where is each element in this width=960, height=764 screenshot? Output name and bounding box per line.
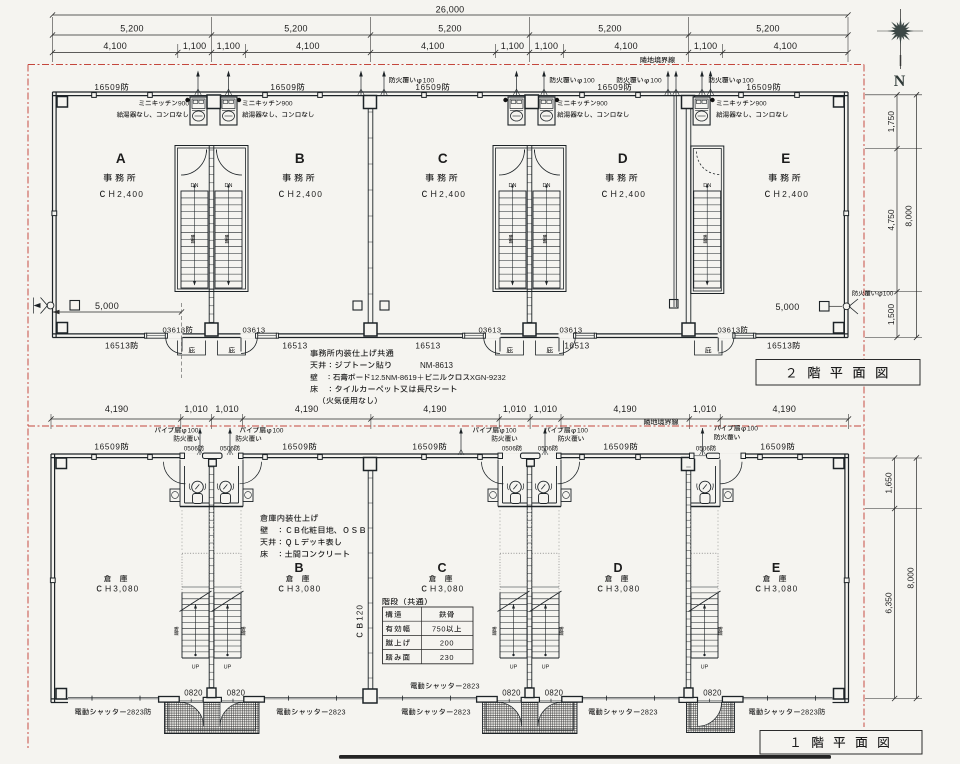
svg-text:ミニキッチン900: ミニキッチン900: [716, 99, 767, 109]
2F wall vent left: [47, 302, 54, 309]
boundary line top (2F): [28, 64, 864, 66]
svg-text:6,350: 6,350: [884, 592, 894, 614]
svg-text:給湯器なし、コンロなし: 給湯器なし、コンロなし: [116, 110, 189, 120]
svg-text:03613: 03613: [478, 326, 501, 335]
svg-text:16513: 16513: [282, 342, 307, 351]
svg-text:防火覆い: 防火覆い: [558, 434, 585, 444]
svg-text:4,100: 4,100: [296, 41, 320, 51]
svg-text:防火覆いφ100: 防火覆いφ100: [549, 76, 595, 86]
svg-text:ＣＨ3,080: ＣＨ3,080: [95, 583, 140, 596]
1F toilet+stair module E: [685, 458, 687, 699]
svg-text:天井：ＱＬデッキ表し: 天井：ＱＬデッキ表し: [260, 537, 342, 549]
svg-text:750以上: 750以上: [432, 624, 462, 635]
svg-text:16509防: 16509防: [270, 81, 305, 94]
svg-text:（火気使用なし）: （火気使用なし）: [318, 396, 382, 408]
svg-text:4,190: 4,190: [295, 404, 319, 414]
svg-text:NM-8613: NM-8613: [420, 361, 453, 370]
svg-text:DN: DN: [225, 183, 233, 189]
svg-text:0820: 0820: [227, 689, 246, 698]
svg-text:230: 230: [440, 653, 454, 662]
2F title box: [756, 360, 920, 386]
svg-text:4,190: 4,190: [105, 404, 129, 414]
svg-text:16513防: 16513防: [105, 340, 139, 353]
svg-text:1,500: 1,500: [886, 304, 896, 326]
svg-text:0506防: 0506防: [696, 444, 717, 454]
svg-text:16509防: 16509防: [603, 441, 638, 454]
1F shutter tracks: [68, 696, 159, 698]
svg-text:ＣＨ2,400: ＣＨ2,400: [420, 188, 466, 201]
svg-text:壁 ：ＣＢ化粧目地、ＯＳＢ: 壁 ：ＣＢ化粧目地、ＯＳＢ: [259, 525, 367, 537]
svg-text:UP: UP: [224, 665, 232, 671]
svg-text:ＣＨ2,400: ＣＨ2,400: [277, 188, 323, 201]
svg-text:5,000: 5,000: [775, 302, 799, 312]
svg-text:事務所内装仕上げ共通: 事務所内装仕上げ共通: [310, 348, 395, 360]
svg-text:DN: DN: [509, 183, 517, 189]
svg-text:事務所: 事務所: [605, 172, 640, 185]
svg-text:0506防: 0506防: [502, 444, 523, 454]
svg-text:A: A: [116, 151, 126, 166]
2F stair/kitchen module C-D: [493, 146, 566, 292]
svg-text:1,100: 1,100: [501, 41, 525, 51]
svg-text:防火覆い: 防火覆い: [235, 434, 262, 444]
svg-text:03613: 03613: [242, 326, 265, 335]
1F bottom module C-D: [497, 700, 563, 702]
svg-text:4,100: 4,100: [774, 41, 798, 51]
svg-text:ＣＨ3,080: ＣＨ3,080: [277, 583, 322, 596]
boundary line top (1F): [28, 425, 864, 427]
dimension extension lines top: [52, 17, 54, 62]
svg-text:16509防: 16509防: [94, 441, 129, 454]
svg-text:電動シャッター2823: 電動シャッター2823: [276, 708, 346, 719]
svg-text:200: 200: [440, 639, 454, 648]
1F bottom module A-B: [179, 700, 245, 702]
svg-text:4,190: 4,190: [613, 404, 637, 414]
svg-text:庇: 庇: [228, 346, 235, 356]
svg-text:03613防: 03613防: [162, 326, 193, 337]
svg-text:UP: UP: [701, 665, 709, 671]
2F top wall window dividers: [92, 93, 97, 98]
svg-text:D: D: [618, 151, 628, 166]
svg-text:天井：ジプトーン貼り: 天井：ジプトーン貼り: [310, 360, 392, 372]
1F toilet+stair module A-B: [185, 453, 240, 458]
svg-text:防火覆いφ100: 防火覆いφ100: [852, 289, 894, 299]
dimension row 26,000: [53, 14, 849, 16]
svg-text:16509防: 16509防: [412, 441, 447, 454]
svg-text:5,200: 5,200: [120, 24, 144, 34]
1F top wall window dividers: [92, 455, 97, 460]
svg-text:0506防: 0506防: [184, 444, 205, 454]
svg-text:電動シャッター2823: 電動シャッター2823: [588, 708, 658, 719]
2F stair/kitchen module A-B: [175, 146, 248, 292]
svg-text:電動シャッター2823: 電動シャッター2823: [410, 682, 480, 693]
2F side wall ticks: [52, 211, 57, 216]
svg-text:２ 階 平 面 図: ２ 階 平 面 図: [785, 364, 891, 384]
svg-text:4,100: 4,100: [103, 41, 127, 51]
svg-text:16509防: 16509防: [597, 81, 632, 94]
svg-text:踏み面: 踏み面: [385, 653, 412, 664]
svg-text:事務所: 事務所: [425, 172, 460, 185]
svg-text:給湯器なし、コンロなし: 給湯器なし、コンロなし: [716, 110, 789, 120]
2F outer walls: [53, 91, 849, 93]
svg-text:D: D: [613, 561, 622, 575]
svg-text:給湯器なし、コンロなし: 給湯器なし、コンロなし: [557, 110, 630, 120]
svg-text:事務所: 事務所: [768, 172, 803, 185]
right dimension chain 1F: [865, 457, 922, 459]
svg-text:事務所: 事務所: [282, 172, 317, 185]
svg-text:16509防: 16509防: [746, 81, 781, 94]
right dimension chain 2F: [865, 94, 922, 96]
svg-text:4,100: 4,100: [614, 41, 638, 51]
svg-text:隣地境界線: 隣地境界線: [644, 418, 679, 429]
north compass: [900, 9, 902, 69]
svg-text:UP: UP: [542, 665, 550, 671]
svg-text:0820: 0820: [502, 689, 521, 698]
svg-text:DN: DN: [191, 183, 199, 189]
svg-text:0820: 0820: [545, 689, 564, 698]
svg-text:壁 ：石膏ボード12.5NM-8619＋ビニルクロスXGN-: 壁 ：石膏ボード12.5NM-8619＋ビニルクロスXGN-9232: [309, 373, 506, 384]
2F corner columns: [57, 97, 68, 108]
dimension row 4,100/1,100: [53, 52, 849, 54]
svg-text:1,100: 1,100: [217, 41, 241, 51]
1F corner columns: [56, 458, 67, 469]
svg-text:UP: UP: [510, 665, 518, 671]
svg-text:E: E: [781, 151, 791, 166]
svg-text:16509防: 16509防: [760, 441, 795, 454]
svg-text:5,000: 5,000: [95, 301, 119, 311]
2F stair/kitchen module E: [685, 96, 687, 334]
svg-text:ＣＨ2,400: ＣＨ2,400: [600, 188, 646, 201]
svg-text:ミニキッチン900: ミニキッチン900: [138, 99, 189, 109]
svg-text:16509防: 16509防: [94, 81, 129, 94]
svg-text:UP: UP: [192, 665, 200, 671]
svg-text:電動シャッター2823: 電動シャッター2823: [401, 708, 471, 719]
svg-text:B: B: [294, 561, 303, 575]
1F side wall ticks: [50, 578, 55, 583]
svg-text:5,200: 5,200: [284, 24, 308, 34]
svg-text:給湯器なし、コンロなし: 給湯器なし、コンロなし: [242, 110, 315, 120]
svg-text:ＣＨ3,080: ＣＨ3,080: [420, 583, 465, 596]
boundary line right: [863, 65, 865, 728]
dimension row 5,200 x5: [53, 34, 849, 36]
svg-text:8,000: 8,000: [904, 205, 914, 227]
svg-text:庇: 庇: [705, 346, 712, 356]
1F partition B/C: [367, 458, 369, 699]
svg-text:踊場: 踊場: [559, 626, 566, 636]
svg-text:N: N: [894, 73, 906, 90]
svg-text:防火覆い: 防火覆い: [714, 433, 741, 443]
svg-text:16513防: 16513防: [767, 340, 801, 353]
svg-text:庇: 庇: [546, 346, 553, 356]
svg-text:庇: 庇: [188, 346, 195, 356]
1F bottom module E: [693, 700, 724, 702]
svg-text:5,200: 5,200: [598, 24, 622, 34]
svg-text:ＣＨ3,080: ＣＨ3,080: [596, 583, 641, 596]
svg-text:1,010: 1,010: [184, 404, 208, 414]
svg-text:1,750: 1,750: [886, 111, 896, 133]
svg-text:1,010: 1,010: [534, 404, 558, 414]
svg-text:踊場: 踊場: [174, 626, 181, 636]
svg-text:1,010: 1,010: [215, 404, 239, 414]
svg-text:DN: DN: [703, 183, 711, 189]
svg-text:事務所: 事務所: [103, 172, 138, 185]
svg-text:03613防: 03613防: [717, 326, 748, 337]
svg-text:4,190: 4,190: [423, 404, 447, 414]
svg-text:DN: DN: [543, 183, 551, 189]
svg-text:E: E: [772, 561, 780, 575]
svg-text:構造: 構造: [386, 610, 403, 621]
svg-text:ＣＢ120: ＣＢ120: [355, 604, 367, 639]
2F partition B/C: [367, 96, 369, 334]
svg-text:踊場: 踊場: [492, 626, 499, 636]
svg-text:1,650: 1,650: [884, 472, 894, 494]
2F dim 5,000 left: [53, 311, 182, 313]
svg-text:4,100: 4,100: [421, 41, 445, 51]
svg-text:C: C: [438, 151, 448, 166]
2F vent arrows: [197, 73, 199, 96]
svg-text:庇: 庇: [506, 346, 513, 356]
svg-text:踊場: 踊場: [543, 234, 550, 244]
svg-text:B: B: [295, 151, 305, 166]
svg-text:16513: 16513: [564, 342, 589, 351]
svg-text:踊場: 踊場: [703, 234, 710, 244]
svg-text:03613: 03613: [559, 326, 582, 335]
svg-text:踊場: 踊場: [225, 234, 232, 244]
svg-text:16509防: 16509防: [282, 441, 317, 454]
1F title box: [760, 731, 922, 755]
svg-text:ＣＨ2,400: ＣＨ2,400: [763, 188, 809, 201]
svg-text:C: C: [437, 561, 446, 575]
svg-text:１ 階 平 面 図: １ 階 平 面 図: [789, 734, 892, 753]
svg-text:1,010: 1,010: [693, 404, 717, 414]
svg-text:5,200: 5,200: [438, 24, 462, 34]
svg-text:5,200: 5,200: [756, 24, 780, 34]
svg-text:8,000: 8,000: [905, 567, 915, 589]
svg-text:鉄骨: 鉄骨: [438, 610, 455, 621]
svg-text:0820: 0820: [703, 689, 722, 698]
1F outer walls: [51, 453, 849, 455]
svg-text:防火覆い: 防火覆い: [491, 434, 518, 444]
1F toilet+stair module C-D: [503, 453, 558, 458]
svg-text:隣地境界線: 隣地境界線: [640, 56, 675, 67]
svg-text:床 ：タイルカーペット又は長尺シート: 床 ：タイルカーペット又は長尺シート: [310, 384, 458, 396]
svg-text:有効幅: 有効幅: [386, 624, 412, 635]
svg-text:1,100: 1,100: [183, 41, 207, 51]
svg-text:0506防: 0506防: [220, 444, 241, 454]
svg-text:蹴上げ: 蹴上げ: [386, 639, 412, 650]
svg-text:16513: 16513: [415, 342, 440, 351]
svg-text:ミニキッチン900: ミニキッチン900: [242, 99, 293, 109]
svg-text:ＣＨ3,080: ＣＨ3,080: [754, 583, 799, 596]
scan artifact bottom: [339, 755, 831, 759]
svg-text:踊場: 踊場: [509, 234, 516, 244]
svg-text:26,000: 26,000: [436, 5, 465, 15]
svg-text:ミニキッチン900: ミニキッチン900: [557, 99, 608, 109]
svg-text:1,010: 1,010: [503, 404, 527, 414]
svg-text:0506防: 0506防: [538, 444, 559, 454]
svg-text:4,190: 4,190: [773, 404, 797, 414]
svg-text:電動シャッター2823防: 電動シャッター2823防: [74, 708, 151, 719]
svg-text:電動シャッター2823防: 電動シャッター2823防: [748, 708, 825, 719]
2F thin partition D bay: [673, 96, 675, 307]
svg-text:1,100: 1,100: [535, 41, 559, 51]
svg-text:ＣＨ2,400: ＣＨ2,400: [98, 188, 144, 201]
svg-text:踊場: 踊場: [718, 626, 725, 636]
svg-text:1,100: 1,100: [694, 41, 718, 51]
svg-text:4,750: 4,750: [886, 209, 896, 231]
svg-text:踊場: 踊場: [191, 234, 198, 244]
svg-text:踊場: 踊場: [241, 626, 248, 636]
1F pipe-fan arrows: [199, 428, 201, 455]
svg-text:床 ：土間コンクリート: 床 ：土間コンクリート: [260, 549, 350, 561]
svg-text:0820: 0820: [184, 689, 203, 698]
1F dimension row: [51, 418, 849, 420]
svg-text:倉庫内装仕上げ: 倉庫内装仕上げ: [260, 513, 319, 525]
boundary line left: [27, 65, 29, 749]
svg-text:防火覆い: 防火覆い: [173, 434, 200, 444]
svg-text:16509防: 16509防: [415, 81, 450, 94]
